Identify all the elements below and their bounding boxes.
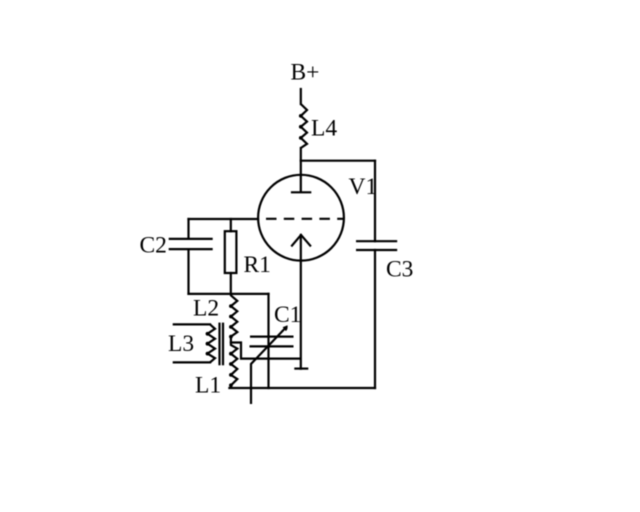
capacitor C2 (169, 238, 213, 240)
svg-text:C2: C2 (140, 233, 167, 259)
wire C2 branch left vertical bottom (187, 249, 189, 294)
svg-text:V1: V1 (349, 174, 378, 200)
resistor R1 top lead (230, 219, 232, 231)
tube V1 envelope (258, 175, 344, 261)
tube V1 grid (dashed) (266, 218, 345, 220)
inductor L1 (lower coil section) (231, 343, 237, 389)
svg-text:L1: L1 (195, 373, 221, 399)
transformer core (218, 323, 220, 366)
wire B+ lead down to L4 (300, 89, 302, 104)
svg-text:R1: R1 (244, 252, 271, 278)
inductor L3 top lead (174, 323, 210, 325)
capacitor C1 adjustment arrow (251, 328, 286, 404)
inductor L4 (301, 104, 307, 148)
wire right branch down to C3 (374, 161, 376, 242)
wire C1 branch vertical (267, 294, 269, 388)
wire bottom bus (229, 387, 375, 389)
inductor L3 (208, 324, 216, 362)
svg-text:B+: B+ (291, 60, 320, 86)
ground bar (cathode return terminal) (294, 368, 308, 370)
svg-text:L2: L2 (193, 296, 219, 322)
resistor R1 bottom lead (230, 273, 232, 294)
capacitor C3 (356, 240, 397, 242)
tube V1 plate bar (292, 191, 310, 193)
svg-text:C1: C1 (274, 302, 301, 328)
wire grid lead to left node (189, 218, 259, 220)
wire C2 branch left vertical top (187, 219, 189, 239)
inductor L3 bottom lead (174, 361, 210, 363)
svg-text:C3: C3 (386, 257, 413, 283)
inductor L2 (upper coil section) (231, 294, 237, 343)
wire top node to C3 branch (301, 160, 375, 162)
svg-text:L3: L3 (168, 331, 194, 357)
wire cathode down (300, 235, 302, 369)
resistor R1 (225, 231, 237, 273)
wire L4 to plate (junction at top node) (300, 148, 302, 192)
wire C3 bottom branch (374, 250, 376, 388)
tube V1 cathode chevron (292, 235, 310, 246)
svg-text:L4: L4 (311, 116, 337, 142)
wire coil tap to cathode (231, 343, 300, 359)
wire grid-leak node horizontal (189, 293, 269, 295)
capacitor C1 (variable) plates (250, 336, 294, 338)
